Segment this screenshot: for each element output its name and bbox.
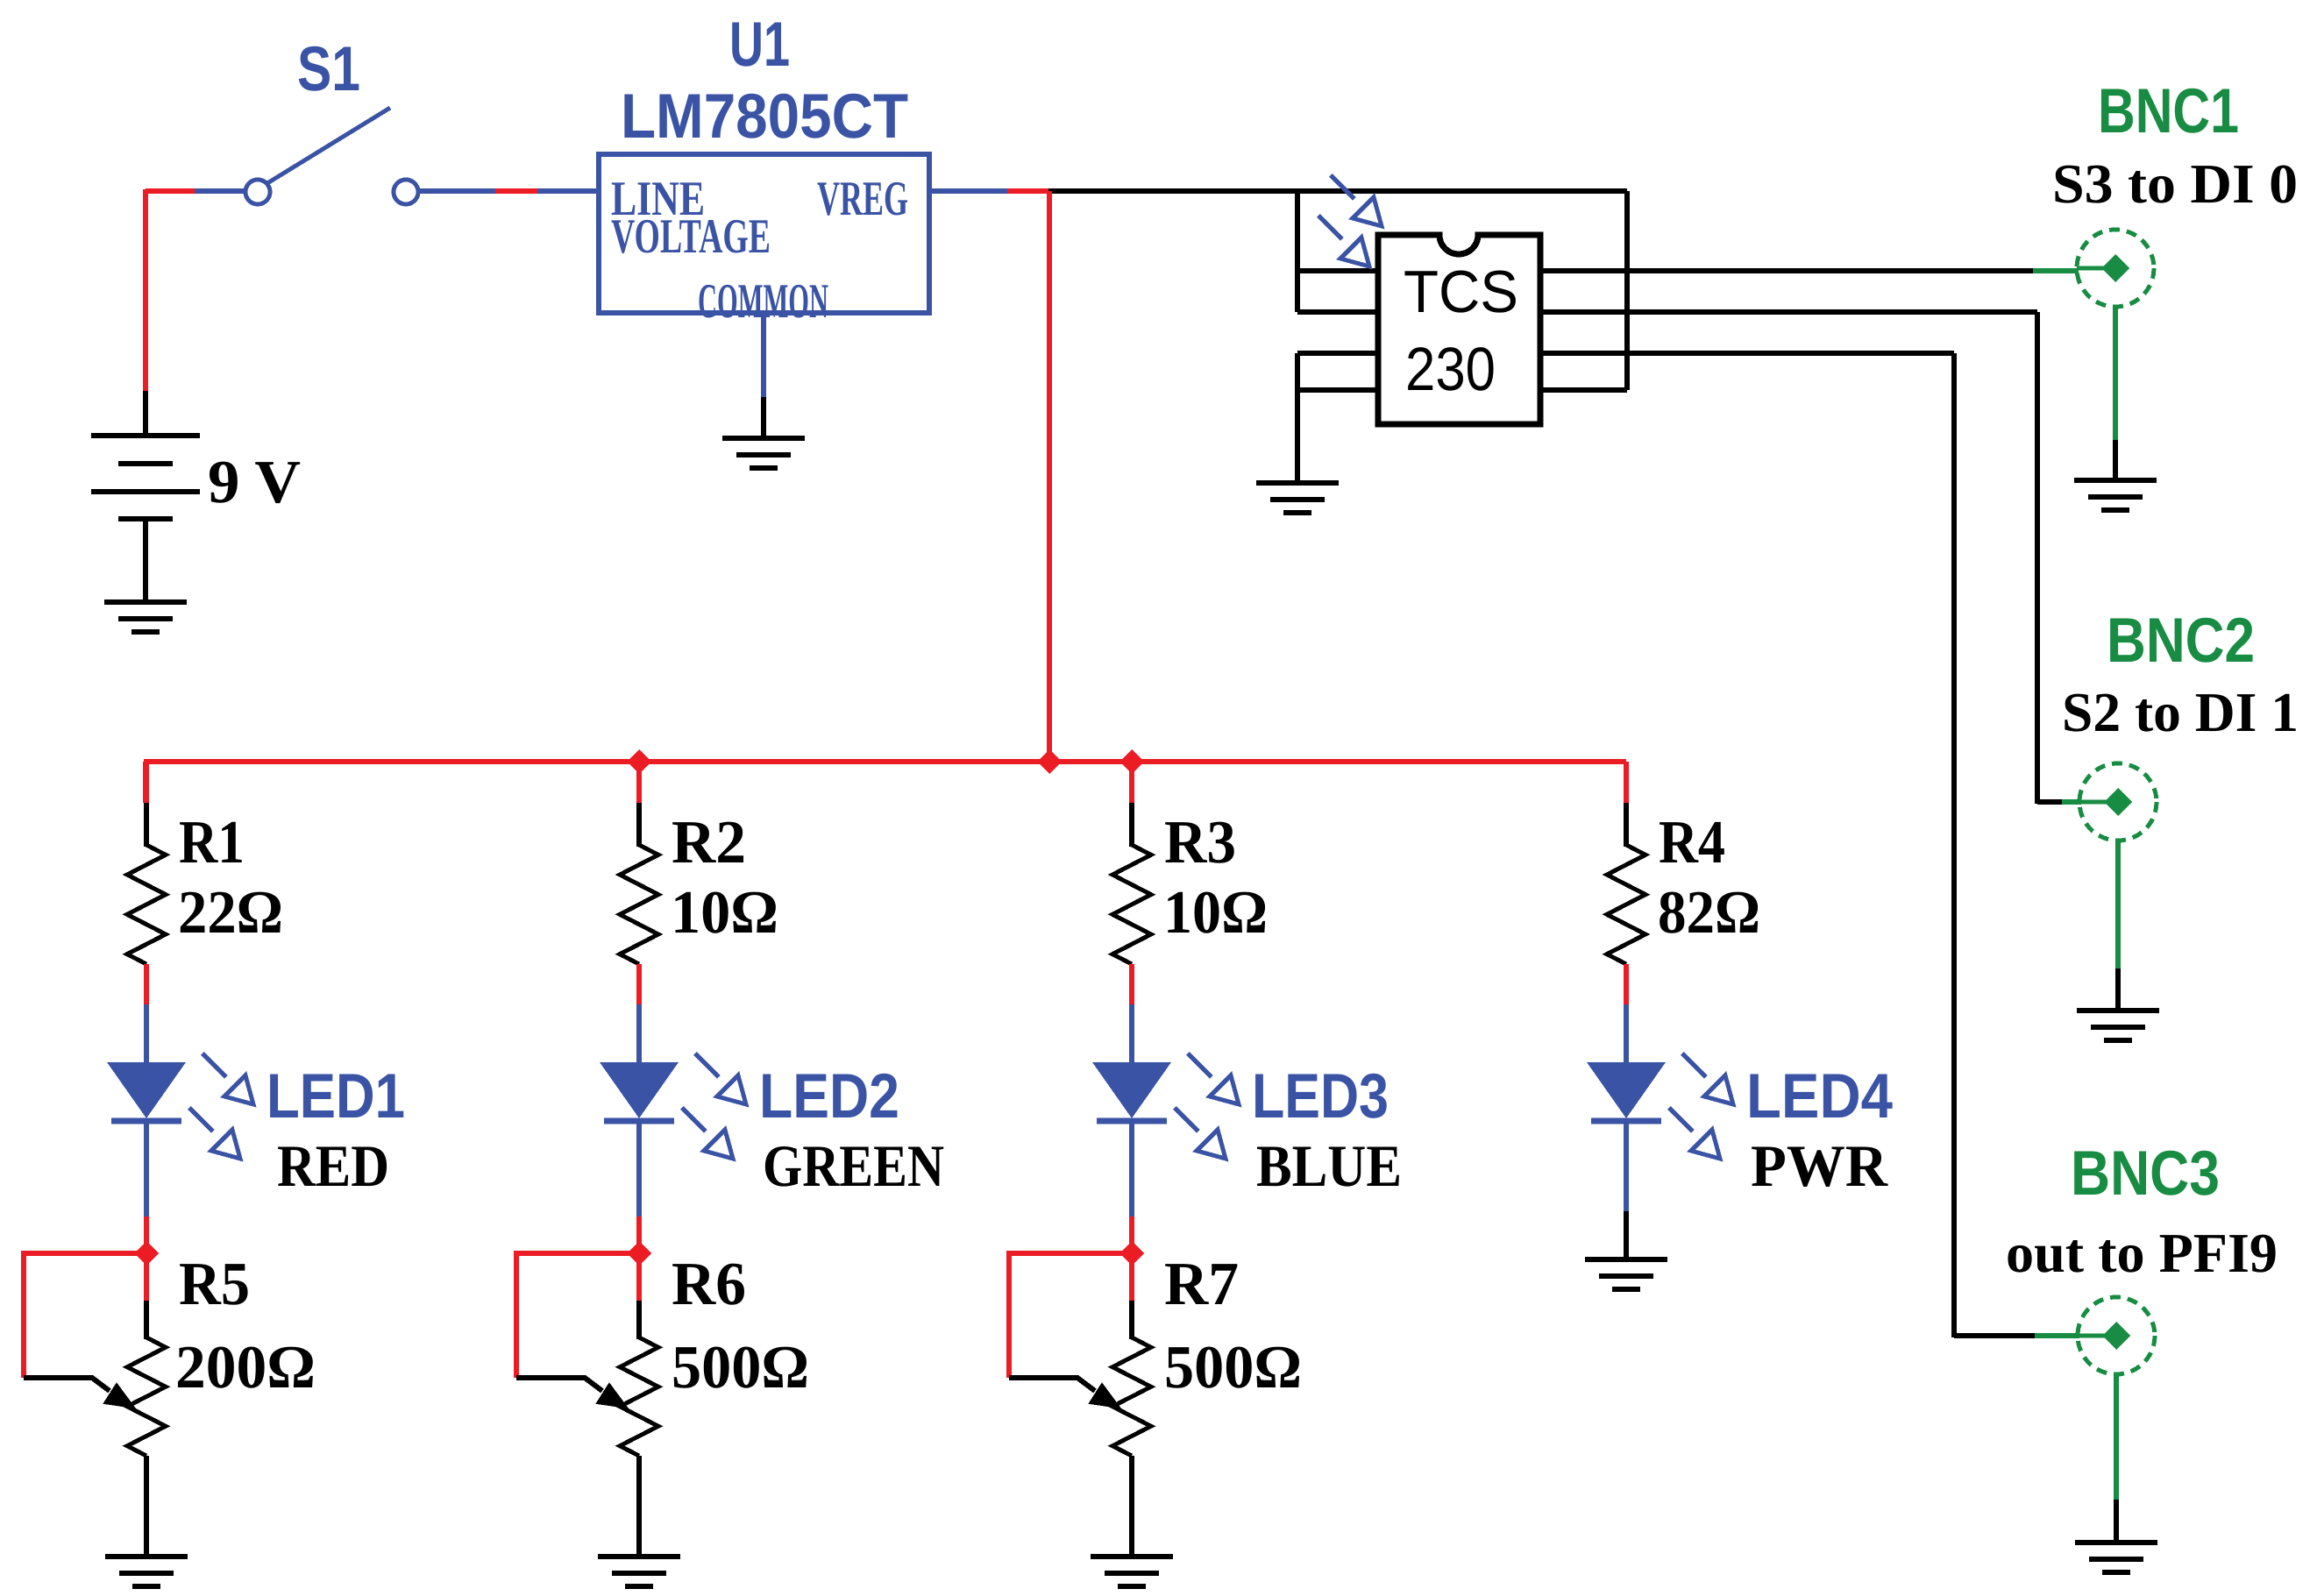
svg-text:R3: R3 (1164, 809, 1236, 876)
svg-text:R7: R7 (1164, 1251, 1239, 1318)
light arrows into TCS230 (1331, 175, 1382, 226)
LED light arrows (1188, 1053, 1239, 1104)
junction R5 wiper tie (134, 1241, 159, 1266)
ground (R5) (105, 1557, 188, 1586)
wire S2 to BNC2 (black) (2037, 799, 2062, 805)
wire into LED4 anode (blue) (1624, 1004, 1629, 1064)
wire +5V LED bus (red) (146, 759, 1626, 764)
battery V1 9V (91, 436, 200, 599)
wire R7 wiper loop (red) (1009, 1253, 1123, 1378)
wire +5V feed down to LED bus (red) (1047, 191, 1052, 762)
LED light arrows (203, 1053, 253, 1104)
wire into R4 (1624, 803, 1629, 847)
svg-text:R6: R6 (672, 1251, 746, 1318)
resistor R2 10Ω (620, 845, 658, 964)
svg-text:BLUE: BLUE (1256, 1132, 1402, 1199)
ground (battery) (104, 602, 187, 632)
wire LED4 to ground (1624, 1211, 1629, 1259)
wire OUT to BNC3 (green) (2035, 1333, 2079, 1338)
LED LED2 (600, 1062, 679, 1121)
junction bus/feed (1037, 749, 1062, 774)
svg-text:LM7805CT: LM7805CT (621, 82, 908, 152)
wire R2 to LED2 (red) (636, 964, 642, 1004)
ground (R7) (1091, 1557, 1173, 1586)
svg-text:R5: R5 (179, 1251, 250, 1318)
wire into U1 LINE pin (blue) (537, 188, 599, 194)
svg-text:VREG: VREG (817, 172, 908, 226)
svg-text:S2 to DI 1: S2 to DI 1 (2062, 681, 2299, 743)
wire segment (red) (495, 188, 537, 194)
junction R6 wiper tie (627, 1241, 651, 1266)
wire to battery top plate (143, 391, 148, 434)
wire into R3 (1129, 803, 1134, 847)
svg-text:S3 to DI 0: S3 to DI 0 (2052, 153, 2298, 215)
LED light arrows (695, 1053, 746, 1104)
wire LED1 cathode (blue) (144, 1121, 149, 1217)
LED LED1 (107, 1062, 186, 1121)
ground (BNC2) (2077, 1011, 2159, 1040)
svg-text:LED2: LED2 (759, 1061, 899, 1131)
switch S1 (245, 108, 418, 204)
wire into LED1 anode (blue) (144, 1004, 149, 1064)
potentiometer R5 200Ω (127, 1337, 166, 1456)
wire battery+ to S1 (red) (146, 188, 195, 194)
wire VREG out (blue) (929, 188, 1007, 194)
wire R5 to ground (144, 1456, 149, 1557)
wire S2 right (black) (1540, 309, 2037, 315)
svg-text:500Ω: 500Ω (672, 1334, 809, 1401)
wire R7 to ground (1129, 1456, 1134, 1557)
svg-text:TCS: TCS (1404, 259, 1518, 325)
wire to R7 (red) (1129, 1217, 1134, 1301)
svg-text:LED1: LED1 (267, 1061, 405, 1131)
svg-text:VOLTAGE: VOLTAGE (611, 209, 771, 264)
svg-text:22Ω: 22Ω (178, 879, 283, 947)
resistor R3 10Ω (1112, 845, 1151, 964)
wire bus to R1 (red) (144, 759, 149, 803)
svg-text:R1: R1 (179, 809, 245, 876)
wire OUT to BNC3 (black) (1954, 1333, 2035, 1338)
TCS230 chip body (1378, 235, 1540, 424)
svg-text:out to PFI9: out to PFI9 (2006, 1222, 2278, 1284)
wire to R5 (red) (144, 1217, 149, 1301)
resistor R1 22Ω (127, 845, 166, 964)
ground (TCS230) (1256, 483, 1339, 513)
svg-text:PWR: PWR (1751, 1132, 1888, 1199)
BNC1 connector (2077, 230, 2154, 307)
svg-text:RED: RED (277, 1132, 389, 1199)
wire BNC1 shield to ground (2113, 440, 2118, 480)
wire LED3 cathode (blue) (1129, 1121, 1134, 1217)
wire into LED3 anode (blue) (1129, 1004, 1134, 1064)
svg-text:BNC3: BNC3 (2071, 1138, 2220, 1209)
ground (LED4) (1585, 1259, 1667, 1289)
wire into R5 (144, 1301, 149, 1339)
svg-text:U1: U1 (729, 10, 790, 80)
wire BNC2 shield to ground (2115, 968, 2121, 1011)
wire VREG out (red) (1007, 188, 1048, 194)
wire into S1 pole (blue) (195, 188, 246, 194)
wire S3 to BNC1 (green) (2033, 268, 2079, 273)
svg-text:BNC1: BNC1 (2098, 76, 2239, 146)
ground (BNC3) (2075, 1543, 2157, 1572)
LED LED4 (1587, 1062, 1666, 1121)
BNC2 connector (2079, 763, 2157, 841)
wire bus corner down branch1 (red) (143, 762, 148, 803)
junction bus/R3 (1119, 749, 1144, 774)
wire bus corner down branch4 (red) (1624, 762, 1629, 803)
wire COMMON to ground (761, 397, 766, 438)
wire R3 to LED3 (red) (1129, 964, 1134, 1004)
svg-text:230: 230 (1405, 335, 1496, 403)
wire battery+ vertical (red) (143, 189, 148, 391)
wire S2 to BNC2 (green) (2062, 799, 2081, 805)
wire BNC2 shield (green) (2115, 841, 2121, 968)
resistor R4 82Ω (1607, 845, 1645, 964)
wire R7 wiper arm (1009, 1378, 1095, 1391)
svg-text:9 V: 9 V (208, 449, 301, 516)
svg-text:82Ω: 82Ω (1658, 879, 1760, 947)
LED light arrows (1682, 1053, 1733, 1104)
wire to R6 (red) (636, 1217, 642, 1301)
svg-text:10Ω: 10Ω (671, 879, 778, 947)
ground (U1 common) (722, 438, 805, 468)
wire LED2 cathode (blue) (636, 1121, 642, 1217)
svg-text:200Ω: 200Ω (175, 1334, 316, 1401)
wire S1 to U1 (blue) (419, 188, 495, 194)
svg-text:LED3: LED3 (1252, 1061, 1389, 1131)
svg-text:GREEN: GREEN (763, 1132, 944, 1199)
junction bus/R2 (627, 749, 651, 774)
wire R1 to LED1 (red) (144, 964, 149, 1004)
wire bus to R2 (red) (636, 759, 642, 803)
svg-text:R2: R2 (672, 809, 746, 876)
junction R7 wiper tie (1119, 1241, 1144, 1266)
wire R6 wiper arm (516, 1378, 602, 1391)
wire BNC3 shield (green) (2114, 1374, 2119, 1500)
wire BNC3 shield to ground (2114, 1500, 2119, 1543)
svg-text:500Ω: 500Ω (1164, 1334, 1302, 1401)
wire into R7 (1129, 1301, 1134, 1339)
wire LED4 cathode (blue) (1624, 1121, 1629, 1211)
wire R5 wiper loop (red) (24, 1253, 138, 1378)
wire bus to R3 (red) (1129, 759, 1134, 803)
wire into R1 (144, 803, 149, 847)
wire COMMON pin (blue) (761, 313, 766, 397)
LED LED3 (1092, 1062, 1171, 1121)
ground (R6) (598, 1557, 680, 1586)
voltage regulator U1 box (599, 154, 929, 313)
wire S3 to BNC1 (black) (1540, 268, 2033, 273)
svg-text:LED4: LED4 (1746, 1061, 1893, 1131)
ground (BNC1) (2074, 480, 2157, 510)
wire R5 wiper arm (24, 1378, 110, 1391)
wire R6 wiper loop (red) (516, 1253, 630, 1378)
wire OUT right (black) (1540, 351, 1954, 356)
svg-text:10Ω: 10Ω (1163, 879, 1268, 947)
wire R6 to ground (636, 1456, 642, 1557)
wire S2 down to BNC2 (2035, 312, 2040, 804)
wire R4 to LED4 (red) (1624, 964, 1629, 1004)
wire VREG to TCS230 VDD net (black) (1048, 188, 1627, 194)
svg-text:R4: R4 (1659, 809, 1725, 876)
wire into LED2 anode (blue) (636, 1004, 642, 1064)
potentiometer R6 500Ω (620, 1337, 658, 1456)
wire into R6 (636, 1301, 642, 1339)
wire OUT down to BNC3 (1951, 353, 1957, 1337)
wire BNC1 shield (green) (2113, 307, 2118, 440)
wire into R2 (636, 803, 642, 847)
potentiometer R7 500Ω (1112, 1337, 1151, 1456)
TCS230 sensor U2 outer net (1297, 191, 1627, 480)
svg-text:BNC2: BNC2 (2107, 606, 2255, 676)
BNC3 connector (2078, 1297, 2155, 1374)
svg-text:S1: S1 (297, 34, 360, 104)
